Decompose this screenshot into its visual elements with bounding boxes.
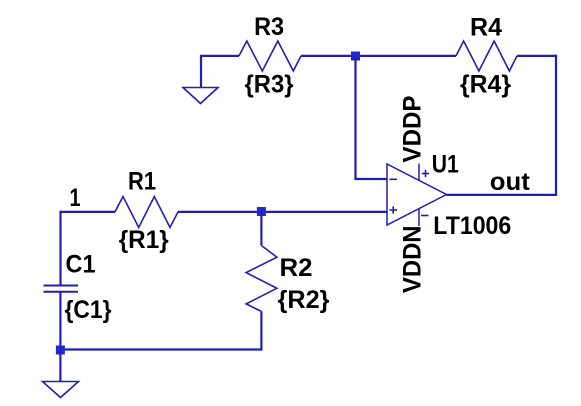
svg-text:R4: R4 [470,14,502,42]
wire: R3 to node A to R4 [301,55,456,57]
value {R3} [245,71,294,99]
wire: R2 bottom [260,312,262,351]
wire: C1 bottom to ground node [59,292,61,350]
value {C1} [65,296,112,324]
ground (top, left of R3) [183,88,218,104]
junction node B [257,207,266,216]
svg-text:VDDN: VDDN [399,226,427,294]
wire: node B down to R2 [260,211,262,246]
op-amp V- pin minus sign [421,215,429,217]
resistor R3 [239,41,301,71]
svg-text:LT1006: LT1006 [433,212,511,240]
svg-text:R2: R2 [280,254,313,282]
svg-text:R3: R3 [254,13,284,41]
resistor R4 [456,41,517,71]
junction ground node [56,346,65,355]
label R3 [254,13,284,41]
op-amp V+ pin plus sign [422,170,429,177]
svg-text:{R1}: {R1} [119,226,169,254]
wire: ground to R3 left [200,55,239,57]
svg-text:R1: R1 [128,168,156,196]
capacitor C1 [44,286,79,292]
wire: right vertical (feedback) [555,55,557,195]
svg-text:VDDP: VDDP [399,96,427,163]
op-amp U1 body [387,164,447,227]
svg-text:out: out [490,168,531,196]
svg-text:1: 1 [70,184,81,212]
power pin label VDDN [399,226,427,294]
wire: top ground stub [200,56,202,88]
svg-text:{R4}: {R4} [460,71,511,99]
svg-text:{R3}: {R3} [245,71,294,99]
value {R4} [460,71,511,99]
label R2 [280,254,313,282]
wire: R4 to right corner [517,55,557,57]
node 1 label [70,184,81,212]
wire: bottom horizontal to ground node [60,348,262,350]
label R1 [128,168,156,196]
wire: R1 to node B to non-inverting input [178,211,387,213]
svg-text:{C1}: {C1} [65,296,112,324]
resistor R2 [246,246,277,312]
resistor R1 [115,197,178,228]
wire: node 1 to R1 [61,211,116,213]
value {R1} [119,226,169,254]
op-amp inverting input minus sign [390,178,398,180]
wire: node A down to inverting input [354,56,356,179]
wire: to inverting input [354,178,387,180]
label U1 [432,151,459,179]
label R4 [470,14,502,42]
label C1 [66,251,96,279]
power pin label VDDP [399,96,427,163]
op-amp non-inverting input plus sign [390,206,398,213]
svg-text:{R2}: {R2} [278,286,330,314]
label LT1006 [433,212,511,240]
value {R2} [278,286,330,314]
wire: bottom ground stub [59,350,61,382]
svg-text:C1: C1 [66,251,96,279]
ground (bottom left) [43,382,79,398]
net label out [490,168,531,196]
svg-text:U1: U1 [432,151,459,179]
wire: op-amp output to right corner [447,194,558,196]
wire: node 1 down to C1 [59,211,61,286]
junction node A [351,52,360,61]
